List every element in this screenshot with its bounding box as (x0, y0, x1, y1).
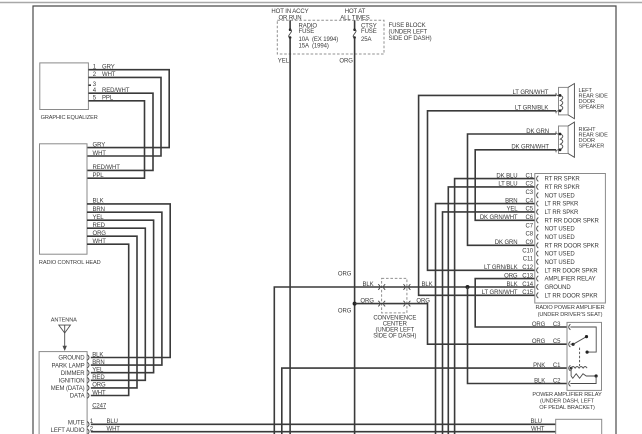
svg-text:RT RR SPKR: RT RR SPKR (545, 177, 581, 183)
svg-text:FUSE: FUSE (299, 29, 315, 35)
svg-text:SPEAKER: SPEAKER (579, 143, 605, 149)
wire PPL equalizer pin5 to radio control head (87, 96, 145, 179)
svg-text:LT RR SPKR: LT RR SPKR (545, 202, 580, 208)
junction on ORG wire at convenience center tap (353, 302, 357, 306)
svg-text:C2: C2 (553, 378, 561, 384)
amplifier pin C14 ground (506, 282, 571, 291)
amplifier unit box (bottom right) (531, 419, 602, 434)
radio control head (39, 144, 101, 266)
svg-text:DATA: DATA (70, 394, 85, 400)
wire ORG from junction through convenience center to relay C5 (355, 298, 567, 344)
svg-text:(UNDER LEFT: (UNDER LEFT (389, 30, 428, 36)
svg-text:BLU: BLU (531, 419, 542, 425)
svg-text:YEL: YEL (278, 59, 290, 65)
svg-text:HOT AT: HOT AT (345, 9, 366, 15)
svg-text:GRY: GRY (93, 142, 106, 148)
svg-text:IGNITION: IGNITION (59, 379, 85, 385)
amplifier pin C9 (495, 240, 600, 249)
svg-text:DK GRN/WHT: DK GRN/WHT (511, 145, 549, 151)
svg-text:OF PEDAL BRACKET): OF PEDAL BRACKET) (539, 405, 595, 411)
amplifier pin C5 (526, 207, 580, 216)
amplifier pin C15 (482, 290, 599, 299)
wire ORG radio head to C247 MEM (DATA) (87, 231, 137, 389)
svg-text:C3: C3 (526, 190, 534, 196)
svg-text:DK BLU: DK BLU (496, 173, 517, 179)
svg-text:RADIO POWER AMPLIFIER: RADIO POWER AMPLIFIER (535, 305, 604, 311)
svg-text:C4: C4 (526, 198, 534, 204)
svg-text:RED: RED (92, 375, 105, 381)
svg-text:AMPLIFIER RELAY: AMPLIFIER RELAY (545, 277, 596, 283)
svg-text:C5: C5 (526, 207, 534, 213)
svg-text:SPEAKER: SPEAKER (579, 105, 605, 111)
svg-text:PPL: PPL (93, 173, 105, 179)
svg-text:C1: C1 (526, 173, 534, 179)
svg-text:BLK: BLK (363, 282, 374, 288)
amplifier pin C6 (480, 215, 600, 224)
svg-text:DK GRN: DK GRN (495, 240, 518, 246)
wire GRY equalizer pin1 to radio control head (87, 65, 169, 149)
radio receiver unit box (C247 connector side) (39, 352, 87, 434)
junction BLK at amplifier ground branch (466, 285, 470, 289)
svg-text:SIDE OF DASH): SIDE OF DASH) (373, 333, 416, 339)
wire RED/WHT equalizer pin4 to radio control head (87, 88, 153, 171)
svg-text:C15: C15 (522, 290, 533, 296)
relay pin C5 ORG (532, 339, 571, 347)
wire RED radio head to C247 IGNITION (87, 223, 145, 381)
svg-text:ORG: ORG (338, 309, 352, 315)
connector arcs on ORG wire at convenience center (378, 301, 410, 307)
wire YEL radio head to C247 DIMMER (87, 215, 154, 374)
svg-text:NOT USED: NOT USED (545, 193, 576, 199)
svg-text:LT GRN/WHT: LT GRN/WHT (513, 90, 549, 96)
wire DK GRN amplifier C9 to right speaker + (468, 129, 557, 246)
svg-text:NOT USED: NOT USED (545, 227, 576, 233)
pin 1 MUTE wire BLU to amplifier (90, 419, 556, 425)
wire BLK radio head to C247 GROUND (87, 199, 170, 359)
amplifier pin C2 (526, 182, 581, 191)
svg-text:C1: C1 (553, 363, 561, 369)
wire WHT equalizer pin2 to radio control head (87, 72, 161, 157)
svg-text:(UNDER DASH, LEFT: (UNDER DASH, LEFT (540, 398, 595, 404)
svg-text:DIMMER: DIMMER (61, 371, 85, 377)
svg-text:ORG: ORG (504, 273, 518, 279)
svg-text:BLK: BLK (422, 282, 433, 288)
svg-text:(UNDER DRIVER'S SEAT): (UNDER DRIVER'S SEAT) (538, 312, 603, 318)
wire BLK from left turn-down through convenience center to amplifier C14 (274, 282, 535, 434)
svg-text:GROUND: GROUND (545, 285, 572, 291)
svg-text:MEM (DATA): MEM (DATA) (51, 386, 85, 392)
svg-text:ANTENNA: ANTENNA (51, 318, 77, 324)
svg-text:NOT USED: NOT USED (545, 260, 576, 266)
wire WHT radio head to C247 DATA (87, 239, 129, 396)
relay pin C2 BLK (534, 378, 570, 386)
amplifier pin C3 not used (526, 190, 576, 199)
svg-text:C9: C9 (526, 240, 534, 246)
svg-text:NOT USED: NOT USED (545, 252, 576, 258)
node HOT AT ALL TIMES (340, 9, 370, 21)
svg-text:LT RR SPKR: LT RR SPKR (545, 210, 580, 216)
antenna (51, 318, 77, 352)
amplifier pin C11 not used (523, 257, 576, 266)
wire LT GRN/BLK amplifier C12 to left speaker - (428, 106, 557, 271)
amplifier pin C12 (484, 265, 598, 274)
wire LT BLU amplifier C2 from below (448, 182, 535, 434)
pin 2 LEFT AUDIO wire WHT to amplifier (90, 427, 556, 433)
svg-text:YEL: YEL (92, 368, 104, 374)
amplifier pin C7 not used (526, 223, 576, 232)
amplifier pin C1 (526, 173, 581, 182)
svg-text:C13: C13 (522, 273, 533, 279)
power amplifier relay K1 (under dash, left of pedal bracket) (532, 322, 602, 410)
svg-text:LEFT AUDIO: LEFT AUDIO (51, 428, 85, 434)
svg-text:LT RR DOOR SPKR: LT RR DOOR SPKR (545, 293, 599, 299)
svg-text:DK GRN: DK GRN (526, 129, 549, 135)
svg-text:ORG: ORG (360, 298, 374, 304)
wire ORG from CTSY fuse down (338, 54, 355, 434)
svg-text:C6: C6 (526, 215, 534, 221)
svg-text:RED/WHT: RED/WHT (93, 165, 121, 171)
relay contacts (switch from C5 to C3 circuit) (570, 327, 596, 354)
svg-text:ORG: ORG (532, 322, 546, 328)
svg-text:WHT: WHT (93, 151, 107, 157)
svg-text:BLK: BLK (534, 378, 545, 384)
wire BRN amplifier C4 from below (436, 198, 535, 434)
svg-text:RT RR DOOR SPKR: RT RR DOOR SPKR (545, 218, 600, 224)
pin 3 label and stub (88, 82, 96, 88)
svg-text:10A (EX 1994): 10A (EX 1994) (299, 37, 339, 43)
svg-text:POWER AMPLIFIER RELAY: POWER AMPLIFIER RELAY (532, 392, 602, 398)
svg-text:C2: C2 (526, 182, 534, 188)
left rear side door speaker (556, 84, 608, 119)
relay armature dashed link (579, 348, 581, 366)
fuse block (dashed box, under left side of dash) (277, 20, 431, 54)
svg-text:FUSE: FUSE (361, 29, 377, 35)
svg-text:ORG: ORG (339, 59, 353, 65)
svg-text:LT GRN/BLK: LT GRN/BLK (484, 265, 518, 271)
relay coil between C1 and C2 (570, 367, 598, 384)
node HOT IN ACCY OR RUN (271, 9, 308, 21)
svg-text:ORG: ORG (92, 383, 106, 389)
svg-text:ORG: ORG (338, 272, 352, 278)
amplifier pin C10 not used (522, 248, 575, 257)
wire LT GRN/WHT amplifier C15 to left speaker + (419, 90, 556, 295)
graphic equalizer U1 (40, 63, 98, 121)
svg-text:C3: C3 (553, 322, 561, 328)
svg-text:LT GRN/BLK: LT GRN/BLK (515, 106, 549, 112)
amplifier pin C8 not used (526, 232, 576, 241)
wire PNK relay C1 from below left (282, 368, 567, 434)
svg-text:YEL: YEL (506, 207, 518, 213)
svg-text:RT RR DOOR SPKR: RT RR DOOR SPKR (545, 243, 600, 249)
svg-text:BRN: BRN (505, 198, 517, 204)
svg-text:BLK: BLK (92, 352, 103, 358)
CTSY fuse 25A (353, 20, 377, 54)
svg-text:GRAPHIC EQUALIZER: GRAPHIC EQUALIZER (41, 115, 98, 121)
svg-text:SIDE OF DASH): SIDE OF DASH) (389, 36, 432, 42)
svg-text:BRN: BRN (92, 360, 104, 366)
svg-text:ORG: ORG (532, 339, 546, 345)
convenience center (dashed box, under left side of dash) (373, 278, 416, 339)
svg-text:GROUND: GROUND (58, 356, 85, 362)
svg-text:MUTE: MUTE (68, 421, 85, 427)
connector label C247 (92, 404, 107, 410)
svg-text:C12: C12 (522, 265, 533, 271)
svg-text:DK GRN/WHT: DK GRN/WHT (480, 215, 518, 221)
svg-text:HOT IN ACCY: HOT IN ACCY (271, 9, 308, 15)
svg-text:15A (1994): 15A (1994) (299, 44, 329, 50)
right rear side door speaker (556, 122, 608, 157)
svg-text:C8: C8 (526, 232, 534, 238)
wire YEL amplifier C5 from below (443, 207, 535, 434)
wire DK BLU amplifier C1 from below (455, 173, 535, 434)
connector arcs on BLK wire at convenience center (378, 284, 410, 290)
svg-text:NOT USED: NOT USED (545, 235, 576, 241)
amplifier pin C4 (526, 198, 580, 207)
svg-text:RT RR SPKR: RT RR SPKR (545, 185, 581, 191)
svg-text:LT GRN/WHT: LT GRN/WHT (482, 290, 518, 296)
svg-text:RADIO CONTROL HEAD: RADIO CONTROL HEAD (39, 260, 101, 266)
svg-text:C10: C10 (522, 248, 533, 254)
wire ORG amplifier C13 to relay C3 (475, 273, 567, 327)
wire BLK relay C2 to junction on BLK ground wire (468, 287, 568, 384)
amplifier pin C13 amplifier relay (522, 273, 595, 282)
svg-text:BLK: BLK (506, 282, 517, 288)
svg-text:FUSE BLOCK: FUSE BLOCK (389, 23, 426, 29)
svg-text:PARK LAMP: PARK LAMP (52, 363, 85, 369)
svg-text:25A: 25A (361, 37, 371, 43)
svg-text:WHT: WHT (531, 426, 545, 432)
svg-text:WHT: WHT (92, 390, 106, 396)
wire BRN radio head to C247 PARK LAMP (87, 207, 162, 366)
svg-text:C5: C5 (553, 339, 561, 345)
svg-text:C11: C11 (523, 257, 534, 263)
relay pin C3 ORG (532, 322, 571, 330)
wire YEL from radio fuse down (278, 54, 290, 434)
svg-text:PNK: PNK (533, 363, 545, 369)
connector C247 pin arcs (87, 355, 89, 434)
wire DK GRN/WHT amplifier C6 to right speaker - (475, 145, 556, 221)
radio power amplifier connector (under driver's seat) (535, 174, 606, 318)
svg-text:C7: C7 (526, 223, 534, 229)
relay pin C1 PNK (533, 363, 570, 371)
svg-text:LT RR DOOR SPKR: LT RR DOOR SPKR (545, 268, 599, 274)
svg-text:C14: C14 (522, 282, 533, 288)
svg-text:ORG: ORG (416, 298, 430, 304)
radio fuse 10A (ex 1994) 15A (1994) (289, 20, 339, 54)
svg-text:LT BLU: LT BLU (498, 182, 517, 188)
